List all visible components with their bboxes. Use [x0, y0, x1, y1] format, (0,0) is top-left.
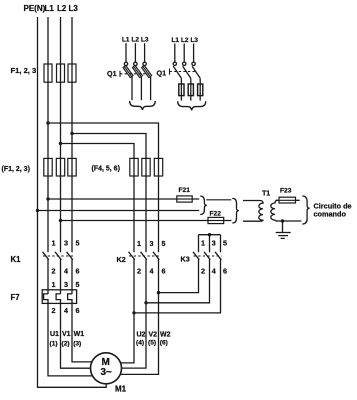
svg-text:2: 2 — [201, 267, 205, 276]
wire K3 pole2 to V2 — [146, 260, 210, 303]
wire between braces — [206, 199, 231, 201]
svg-text:(4): (4) — [136, 340, 144, 347]
wire K1 pole outputs — [48, 260, 72, 294]
motor M1 circle — [91, 353, 122, 384]
junction control PE — [36, 209, 39, 212]
svg-text:3: 3 — [64, 239, 68, 248]
svg-text:W2: W2 — [160, 332, 171, 339]
svg-text:L3: L3 — [141, 37, 149, 44]
svg-text:L2: L2 — [57, 4, 67, 13]
svg-text:F1, 2, 3: F1, 2, 3 — [11, 66, 37, 75]
wire to transformer primary bottom — [243, 220, 260, 222]
svg-text:Q1: Q1 — [157, 69, 167, 78]
wire W1 to motor — [72, 303, 106, 362]
junction K3-V2 — [144, 301, 147, 304]
svg-text:L3: L3 — [69, 4, 79, 13]
wire tap L2 to branch — [61, 144, 135, 253]
svg-text:L1: L1 — [122, 37, 130, 44]
fuse (F2) — [56, 158, 64, 176]
svg-text:5: 5 — [223, 239, 227, 248]
junction control L2 — [59, 219, 62, 222]
svg-text:comando: comando — [314, 210, 347, 219]
wire L1 bus — [47, 17, 49, 252]
svg-text:L2: L2 — [132, 37, 140, 44]
junction L1 tap — [46, 121, 49, 124]
F7 heater element pole 1 — [44, 294, 48, 304]
fuse F1 — [44, 64, 52, 82]
svg-text:W1: W1 — [74, 331, 85, 338]
overload relay F7 — [11, 280, 80, 315]
wire control tap from L2 to F22 — [61, 220, 232, 222]
wire W2 to motor — [106, 260, 159, 375]
wire U2 to motor — [106, 260, 134, 363]
junction K3 bus — [208, 233, 211, 236]
junction K3-U2 — [132, 311, 135, 314]
wire secondary top to F23 — [276, 199, 300, 201]
svg-text:L3: L3 — [191, 37, 199, 44]
svg-text:1: 1 — [52, 239, 56, 248]
svg-text:K3: K3 — [181, 255, 190, 264]
svg-text:4: 4 — [150, 267, 154, 276]
fuse F21 — [177, 196, 192, 202]
Q1 fuse-blade pole 2 — [134, 66, 142, 77]
junction L2 tap — [59, 142, 62, 145]
F7 heater element pole 3 — [68, 294, 72, 304]
svg-text:(F4, 5, 6): (F4, 5, 6) — [92, 166, 120, 173]
svg-text:2: 2 — [137, 267, 141, 276]
svg-text:4: 4 — [64, 306, 68, 315]
fuse (F6) — [154, 158, 162, 176]
fuse (F5) — [142, 158, 150, 176]
wire tap L1 to branch — [48, 123, 159, 252]
contactor K1 — [11, 239, 80, 276]
wire control tap from L1 to F21 — [48, 198, 199, 200]
junction L3 tap — [70, 132, 73, 135]
wire K3 pole3 to U2 — [134, 260, 221, 313]
Q1 fuse-blade pole 1 — [124, 66, 132, 77]
svg-text:4: 4 — [64, 267, 68, 276]
svg-text:L1: L1 — [45, 4, 55, 13]
svg-text:3~: 3~ — [101, 367, 113, 378]
fuse (F4) — [130, 158, 138, 176]
svg-text:5: 5 — [76, 239, 80, 248]
svg-text:(1): (1) — [50, 341, 58, 348]
wire V1 to motor — [61, 303, 107, 368]
contactor K2 — [117, 239, 166, 276]
wire secondary bottom — [276, 220, 301, 222]
svg-text:F22: F22 — [210, 211, 222, 218]
underbrace below Q1 switch — [130, 101, 156, 110]
svg-text:4: 4 — [212, 267, 216, 276]
svg-text:2: 2 — [52, 306, 56, 315]
F7 heater element pole 2 — [56, 294, 60, 304]
svg-text:L2: L2 — [181, 37, 189, 44]
junction control L1 — [46, 197, 49, 200]
svg-text:PE(N): PE(N) — [24, 4, 46, 13]
wire PE bus — [38, 17, 107, 387]
svg-text:F23: F23 — [280, 188, 292, 195]
fuse (F1) — [44, 158, 52, 176]
transformer T1 secondary coil — [271, 200, 278, 221]
svg-text:F7: F7 — [11, 293, 20, 302]
svg-text:6: 6 — [76, 267, 80, 276]
svg-text:3: 3 — [212, 239, 216, 248]
svg-text:U2: U2 — [137, 332, 146, 339]
svg-text:Q1: Q1 — [107, 69, 117, 78]
brace before circuito de comando — [302, 196, 309, 224]
fuse (F3) — [68, 158, 76, 176]
svg-text:U1: U1 — [50, 331, 59, 338]
svg-text:K2: K2 — [117, 255, 126, 264]
svg-text:6: 6 — [223, 267, 227, 276]
svg-text:V2: V2 — [149, 332, 158, 339]
fuse in Q1 pole 3 — [198, 84, 203, 96]
svg-text:K1: K1 — [11, 255, 22, 264]
K3 top bus — [199, 234, 221, 236]
transformer T1 primary coil — [259, 201, 263, 222]
svg-text:1: 1 — [201, 239, 205, 248]
svg-text:L1: L1 — [172, 37, 180, 44]
svg-text:2: 2 — [52, 267, 56, 276]
brace after F21 — [200, 196, 207, 215]
wire V2 to motor — [106, 260, 146, 369]
brace after F22 — [232, 198, 239, 223]
svg-text:(3): (3) — [73, 341, 81, 348]
underbrace below Q1 fuse version — [178, 101, 206, 110]
fuse F3 — [68, 64, 76, 82]
fuse in Q1 pole 1 — [179, 84, 184, 96]
svg-text:(5): (5) — [148, 340, 156, 347]
wire L3 bus — [71, 17, 73, 252]
disconnector Q1 (switch version) — [107, 37, 155, 110]
disconnector-fuse Q1 (fuse version) — [157, 37, 206, 110]
svg-text:6: 6 — [76, 306, 80, 315]
wire L2 bus — [60, 17, 62, 252]
fuse F2 — [57, 64, 65, 82]
svg-text:T1: T1 — [262, 191, 270, 198]
svg-text:F21: F21 — [179, 187, 191, 194]
wire tap L3 to branch — [72, 134, 146, 253]
wire U1 to motor — [48, 303, 106, 376]
fuse F23 — [279, 197, 296, 203]
svg-text:(F1, 2, 3): (F1, 2, 3) — [2, 166, 30, 173]
F7 box — [42, 290, 76, 304]
fuse F22 — [208, 217, 224, 223]
fuse in Q1 pole 2 — [188, 84, 193, 96]
wire to transformer primary top — [243, 200, 260, 202]
svg-text:V1: V1 — [62, 331, 71, 338]
svg-text:3: 3 — [150, 239, 154, 248]
junction ground tap — [281, 219, 284, 222]
svg-text:1: 1 — [52, 280, 56, 289]
svg-text:1: 1 — [137, 239, 141, 248]
contactor K3 — [181, 233, 228, 276]
svg-text:(2): (2) — [62, 341, 70, 348]
wire control tap from PE — [38, 210, 200, 212]
svg-text:5: 5 — [162, 239, 166, 248]
svg-text:(6): (6) — [160, 340, 168, 347]
ground symbol — [276, 221, 291, 238]
Q1 fuse-blade pole 3 — [143, 66, 151, 77]
svg-text:5: 5 — [76, 280, 80, 289]
svg-text:6: 6 — [162, 267, 166, 276]
wire K3 pole1 to W2 — [159, 260, 199, 293]
junction K3-W2 — [157, 291, 160, 294]
svg-text:M1: M1 — [115, 384, 127, 393]
svg-text:3: 3 — [64, 280, 68, 289]
